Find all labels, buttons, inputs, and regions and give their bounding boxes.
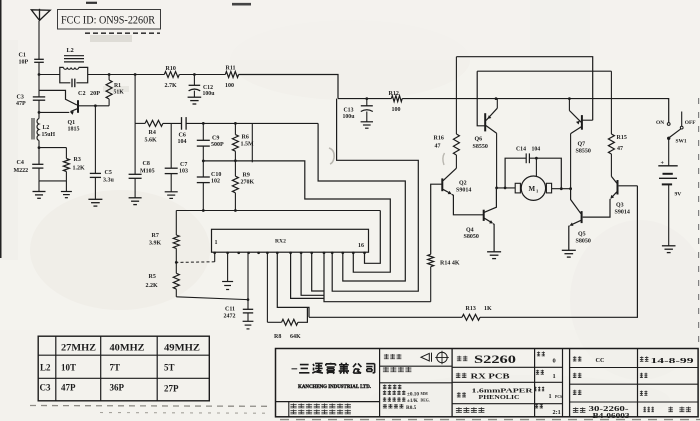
node pin row dots <box>213 251 216 254</box>
resistor R1 <box>108 75 110 81</box>
wire R11 to bus corner <box>239 75 338 99</box>
svg-text:2:1: 2:1 <box>553 409 561 416</box>
label surface treatment (CJK) <box>456 407 485 412</box>
wire C14 right leg <box>529 158 561 189</box>
transistor Q5 base bar <box>581 211 583 223</box>
resistor R10 <box>164 72 179 78</box>
svg-text:20P: 20P <box>90 90 100 97</box>
switch SW1 pole <box>667 137 670 140</box>
svg-text:C11: C11 <box>225 307 235 313</box>
svg-text:Q3: Q3 <box>616 203 624 209</box>
svg-text:ON: ON <box>656 120 664 126</box>
svg-text:S9014: S9014 <box>456 188 471 194</box>
node Q7 emitter bus tap <box>568 97 571 100</box>
wire R5 bottom to C11 node <box>176 297 247 300</box>
resistor R4 <box>145 120 163 126</box>
transistor Q4 emitter <box>484 218 492 223</box>
capacitor C11 <box>243 308 253 310</box>
svg-text:C2: C2 <box>78 90 86 97</box>
battery BT cells <box>658 165 677 167</box>
node C14 mid tap <box>535 157 538 160</box>
wire base junction down to C5 <box>94 106 96 174</box>
wire pin15 nest to C9/C10 node <box>203 161 390 272</box>
wire Q6 emitter to bus <box>496 99 498 109</box>
svg-text:SW1: SW1 <box>676 139 687 145</box>
svg-text:2.7K: 2.7K <box>165 83 178 89</box>
svg-text:5T: 5T <box>164 363 175 373</box>
wire detector node R7 to pin16 riser <box>176 210 380 212</box>
label part no (CJK) <box>573 407 586 412</box>
ground under C4 <box>38 181 40 192</box>
bus tap stub <box>251 123 253 162</box>
label revision (CJK) <box>537 352 545 357</box>
wire C1 to junction <box>38 62 40 74</box>
svg-text:R5: R5 <box>149 274 156 280</box>
wire switch to battery <box>668 138 670 166</box>
resistor R8 <box>282 319 298 325</box>
tolerance note line2 <box>383 391 406 395</box>
wire Q5 emitter to ground <box>568 226 571 251</box>
svg-text:2.2K: 2.2K <box>146 283 159 289</box>
svg-text:CC: CC <box>596 357 605 364</box>
svg-text:R1: R1 <box>114 83 121 89</box>
wire Q1 collector tap to C3 <box>38 90 40 97</box>
label approved (CJK) <box>573 390 582 395</box>
svg-text:49MHZ: 49MHZ <box>164 343 200 353</box>
resistor R16 <box>453 134 459 155</box>
svg-text:5.6K: 5.6K <box>145 138 158 144</box>
svg-text:S9014: S9014 <box>615 210 630 216</box>
scan mark top middle <box>232 3 251 6</box>
wire bus to switch <box>668 99 669 123</box>
svg-text:OFF: OFF <box>685 120 696 126</box>
svg-text:R9: R9 <box>243 173 250 179</box>
wire pin14 nest to filter bus <box>318 123 405 281</box>
wire Q6 collector to motor node <box>496 133 498 188</box>
svg-text:47: 47 <box>617 146 623 152</box>
svg-text:R3: R3 <box>74 157 81 163</box>
capacitor C6 series <box>181 117 183 130</box>
node R7/R5 junction <box>175 261 178 264</box>
scan curl artifact near nest <box>329 148 334 164</box>
svg-text:7T: 7T <box>110 363 121 373</box>
bottom bus wire to R13 <box>309 316 462 318</box>
transistor Q6 base bar <box>484 113 486 131</box>
svg-text:104: 104 <box>532 147 541 153</box>
node R6/R9 mid <box>234 159 237 162</box>
transistor Q2 collector <box>443 168 457 181</box>
node R1 top <box>108 73 111 76</box>
tank loop bottom with capacitor C2 <box>60 75 71 83</box>
svg-text:S2260: S2260 <box>474 354 516 366</box>
wire junction to tank <box>39 74 60 76</box>
svg-text:1: 1 <box>215 240 218 246</box>
switch SW1 OFF contact <box>681 112 683 127</box>
capacitor C7 column <box>170 123 172 168</box>
svg-text:C13: C13 <box>344 108 354 114</box>
wire Q7 emitter to bus <box>568 99 570 111</box>
wire C4-R3 bottom link <box>39 180 66 182</box>
transistor Q7 emitter with arrow <box>569 111 581 123</box>
label date1 (CJK) <box>640 356 649 361</box>
capacitor C12 electrolytic <box>193 75 195 86</box>
resistor R11 <box>225 72 238 78</box>
ground under C5 <box>88 198 102 200</box>
wire Q2 emitter to Q4 base <box>452 194 484 215</box>
wire antenna to C1 <box>38 21 40 59</box>
resistor R13 <box>462 314 480 320</box>
projection symbol target <box>437 352 447 362</box>
wire left rail to filter bus <box>134 75 136 124</box>
switch SW1 ON contact <box>667 123 670 126</box>
svg-text:100: 100 <box>392 107 401 113</box>
wire Q4 emitter to ground <box>493 224 494 252</box>
svg-text:104: 104 <box>178 139 187 145</box>
scan left edge line <box>0 0 2 258</box>
node motor right <box>569 187 572 190</box>
svg-text:40MHZ: 40MHZ <box>110 343 145 353</box>
switch SW1 lever <box>669 129 681 138</box>
wire pin9 step <box>291 252 324 298</box>
transistor Q1 base bar <box>77 100 79 113</box>
svg-text:C9: C9 <box>212 136 219 142</box>
svg-text:RX2: RX2 <box>275 239 286 245</box>
svg-text:S8050: S8050 <box>464 234 479 240</box>
svg-text:R7: R7 <box>152 233 159 239</box>
node C10 bottom <box>202 209 205 212</box>
svg-text:PCS: PCS <box>555 395 562 399</box>
svg-text:Q1: Q1 <box>68 120 76 126</box>
capacitor C14 <box>525 153 527 163</box>
wire pin7 down and jog <box>277 252 309 317</box>
svg-text:C1: C1 <box>19 53 26 59</box>
svg-text:M105: M105 <box>140 169 155 175</box>
svg-text:36P: 36P <box>110 383 125 393</box>
wire pin6 down <box>266 252 268 322</box>
motor M1 left tab <box>515 183 520 193</box>
wire R4 to C6 <box>163 122 182 124</box>
capacitor C3 <box>33 96 45 98</box>
capacitor C8 on left rail <box>134 123 136 174</box>
wire Q7 collector to motor node <box>570 134 572 189</box>
transistor Q3 base bar <box>617 180 619 195</box>
node base/C5 junction <box>94 104 97 107</box>
capacitor C13 electrolytic <box>366 99 368 106</box>
wire pin11 step <box>312 252 324 291</box>
ground under pin2 <box>222 281 233 283</box>
ground under R3 <box>65 181 67 192</box>
title block row lines left <box>276 401 380 403</box>
node L2/C4 junction <box>38 146 41 149</box>
transistor Q7 collector <box>571 127 582 134</box>
svg-text:47P: 47P <box>16 101 26 107</box>
tolerance note line4 <box>383 404 404 408</box>
svg-text:R10: R10 <box>166 66 176 72</box>
wire R15 to Q3 collector <box>610 154 612 176</box>
scan right edge dashes <box>698 98 700 345</box>
wire C14 left leg <box>505 158 526 188</box>
transistor Q6 collector <box>486 126 497 134</box>
svg-text:R4: R4 <box>149 130 156 136</box>
wire R14 riser <box>430 267 432 302</box>
svg-text:M: M <box>529 185 536 193</box>
wire cross rail 2 (Q6 base) <box>477 70 611 72</box>
wire main supply bus <box>338 98 391 100</box>
tank circuit loop with coil L2 <box>60 67 64 74</box>
node C12 tap <box>193 73 196 76</box>
resistor R9 <box>234 161 236 176</box>
node motor left <box>495 187 498 190</box>
label drawn by (CJK) <box>573 356 582 361</box>
wire rail1 left leg / R16 column upper <box>455 57 457 134</box>
svg-text:27P: 27P <box>164 384 179 394</box>
transistor Q7 base bar <box>581 115 583 130</box>
FCC ID label box <box>58 10 161 30</box>
wire junction to R3 <box>39 147 66 149</box>
svg-text:1: 1 <box>553 373 556 380</box>
svg-text:102: 102 <box>211 179 220 185</box>
resistor R12 <box>391 96 402 102</box>
svg-text:R13: R13 <box>466 306 476 312</box>
svg-text:±0.10: ±0.10 <box>407 391 419 397</box>
wire Q1 base <box>79 105 109 107</box>
svg-text:S8050: S8050 <box>576 239 591 245</box>
svg-text:47P: 47P <box>61 383 76 393</box>
title block row lines mid-left <box>380 365 453 367</box>
ground under C11 <box>243 320 254 322</box>
node R9 bottom <box>234 209 237 212</box>
wire Q1 emitter to rail <box>39 111 69 113</box>
ground under C12 <box>188 96 202 98</box>
title block row lines right <box>570 367 699 369</box>
wire pin6 to R8 <box>267 321 281 323</box>
svg-text:R6: R6 <box>242 135 249 141</box>
label projection method (CJK) <box>384 354 402 359</box>
svg-text:2472: 2472 <box>224 314 236 320</box>
node left rail top <box>134 73 137 76</box>
capacitor C10 <box>202 161 204 177</box>
transistor Q3 collector <box>611 176 617 183</box>
svg-text:10T: 10T <box>61 363 76 373</box>
node C14 right bottom <box>560 187 563 190</box>
wire rail2 left leg to Q6 base <box>477 71 485 126</box>
svg-text:100u: 100u <box>203 91 216 97</box>
node emitter tap <box>38 111 41 114</box>
label quantity (CJK) <box>536 370 544 375</box>
svg-text:C7: C7 <box>180 162 187 168</box>
transistor Q5 collector <box>571 189 581 214</box>
wire pin1 stub <box>214 252 216 262</box>
scan mark top left <box>86 2 97 4</box>
svg-text:100: 100 <box>225 83 234 89</box>
svg-text:500P: 500P <box>211 142 224 148</box>
node C13 tap <box>365 97 368 100</box>
capacitor C1 <box>34 58 44 60</box>
wire cross rail 1 (Q7 base) <box>456 57 592 120</box>
wire pin12 down to R14 run <box>324 252 431 302</box>
wire Q3 base <box>619 185 638 187</box>
wire pin10 step <box>301 252 324 295</box>
wire pin16 nest to detector node <box>365 211 381 264</box>
inductor L2 core lines <box>31 118 33 140</box>
tolerance note line3 <box>383 397 406 401</box>
svg-text:0: 0 <box>553 358 556 365</box>
svg-text:S8550: S8550 <box>473 144 488 150</box>
projection symbol cone <box>421 353 429 361</box>
svg-text:C6: C6 <box>179 133 186 139</box>
svg-text:DEG.: DEG. <box>421 399 430 403</box>
wire R16 to Q2 collector <box>455 155 457 168</box>
wire filter bus left <box>135 122 145 124</box>
label date2 (CJK) <box>640 373 648 378</box>
resistor R14 <box>428 254 434 266</box>
note cell text (CJK) <box>290 404 351 409</box>
svg-text:Q4: Q4 <box>466 228 474 234</box>
svg-text:KANCHENG INDUSTRIAL LTD.: KANCHENG INDUSTRIAL LTD. <box>298 384 372 390</box>
smudge dashes under table <box>30 405 268 408</box>
label sheet 1 of 1 (CJK) <box>643 407 654 412</box>
smudge bottom edge <box>280 419 700 421</box>
svg-text:PHENOLIC: PHENOLIC <box>479 394 520 401</box>
transistor Q6 emitter with arrow <box>486 108 497 120</box>
svg-text:RX PCB: RX PCB <box>471 373 510 381</box>
svg-text:16: 16 <box>358 243 364 249</box>
wire rail2 right leg / R15 column upper <box>610 71 612 134</box>
svg-text:R16: R16 <box>434 136 444 142</box>
transistor Q2 emitter <box>443 189 451 193</box>
svg-text:47: 47 <box>435 144 441 150</box>
label checked (CJK) <box>573 373 582 378</box>
capacitor C4 <box>38 148 40 165</box>
svg-text:C14: C14 <box>516 147 526 153</box>
svg-text:51K: 51K <box>114 90 125 96</box>
node C11/R5 tap <box>247 298 250 301</box>
wire C14 tap to motor top <box>535 158 537 176</box>
svg-text:27MHZ: 27MHZ <box>61 343 96 353</box>
ground under C8 <box>129 197 142 199</box>
node Q6 emitter bus tap <box>495 97 498 100</box>
inductor L2 15uH coil <box>38 112 40 147</box>
transistor Q4 base bar <box>483 210 485 221</box>
svg-text:9V: 9V <box>675 192 682 198</box>
ground under C13 <box>361 121 373 123</box>
scan curl artifact near Q2 <box>443 153 445 165</box>
wire C3 to emitter tap <box>38 100 40 112</box>
ground under Q5 <box>562 249 576 251</box>
resistor R6 <box>234 123 236 134</box>
wire Q3 emitter to Q5 base <box>583 199 611 217</box>
svg-text:R0.5: R0.5 <box>406 405 417 411</box>
svg-text:R12: R12 <box>389 91 399 97</box>
svg-text:Q6: Q6 <box>475 137 483 143</box>
svg-text:10P: 10P <box>19 60 29 66</box>
capacitor C2 plates <box>71 79 73 88</box>
title block row lines mid <box>452 366 562 368</box>
svg-text:R11: R11 <box>226 66 236 72</box>
resistor R5 <box>175 262 177 273</box>
frequency table grid <box>38 336 209 401</box>
svg-text:±1/K: ±1/K <box>407 398 418 404</box>
label material (CJK) <box>457 392 466 397</box>
svg-text:C4: C4 <box>17 160 24 166</box>
svg-text:3.3u: 3.3u <box>103 178 115 184</box>
transistor Q5 emitter <box>571 220 582 225</box>
svg-text:Q2: Q2 <box>459 181 467 187</box>
svg-text:C3: C3 <box>40 383 51 393</box>
node antenna/tank junction <box>38 73 41 76</box>
transistor Q3 emitter <box>611 192 617 198</box>
svg-text:R8: R8 <box>274 334 281 340</box>
title block vertical dividers <box>379 349 381 417</box>
svg-text:M222: M222 <box>14 168 29 174</box>
node C9 top <box>202 122 205 125</box>
wire pin1 dashed to R7/R5 junction <box>176 261 214 264</box>
svg-text:Q7: Q7 <box>578 142 586 148</box>
label drawing no (CJK) <box>457 356 468 361</box>
label sheets (CJK) <box>534 387 544 391</box>
svg-text:Q5: Q5 <box>578 232 586 238</box>
wire pin13 nest to bus <box>332 99 418 292</box>
transistor Q1 emitter <box>71 108 79 111</box>
wire motor right <box>552 188 571 190</box>
svg-text:1.2K: 1.2K <box>73 166 86 172</box>
svg-text:L2: L2 <box>67 47 74 54</box>
svg-text:L2: L2 <box>40 363 51 373</box>
svg-text:3.9K: 3.9K <box>149 241 162 247</box>
title block outer frame <box>276 349 699 417</box>
svg-text:C3: C3 <box>17 94 24 100</box>
label date3 (CJK) <box>640 391 648 396</box>
company name San Da Industrial (CJK) <box>299 365 309 373</box>
wire pin4 to C11 <box>247 252 249 309</box>
wire Q7 base to rail1 <box>582 119 593 121</box>
motor M1 body <box>521 176 545 200</box>
resistor R7 <box>175 211 177 236</box>
svg-text:L2: L2 <box>43 125 50 131</box>
ground under battery <box>662 245 676 247</box>
label name (CJK) <box>456 373 467 378</box>
svg-text:R14 4K: R14 4K <box>440 261 460 267</box>
svg-text:270K: 270K <box>241 180 255 186</box>
op-amp IC RX2 body <box>212 229 369 252</box>
transistor Q4 collector <box>484 188 496 212</box>
svg-text:14-8-99: 14-8-99 <box>651 357 695 365</box>
svg-text:R15: R15 <box>617 135 627 141</box>
antenna ANT <box>31 10 50 21</box>
svg-text:C10: C10 <box>211 172 221 178</box>
svg-text:C8: C8 <box>143 161 150 167</box>
svg-text:100u: 100u <box>343 114 356 120</box>
company name leading dash <box>292 368 298 370</box>
wire battery to ground <box>668 184 670 245</box>
wire R8 to pin7 net <box>298 307 308 322</box>
wire R10 to R11 <box>179 74 225 76</box>
wire C9 node to R6 node to corner <box>203 122 318 124</box>
svg-text:103: 103 <box>179 169 188 175</box>
bottom bus wire to Q3 base riser <box>480 186 637 317</box>
svg-text:FCC ID: ON9S-2260R: FCC ID: ON9S-2260R <box>61 13 155 27</box>
tolerance note line1 (CJK) <box>383 385 402 389</box>
capacitor C9 <box>202 123 204 140</box>
wire tank to R1/R10 <box>88 74 165 76</box>
label scale (CJK) <box>535 404 543 408</box>
node C14 left bottom <box>504 187 507 190</box>
label model name (CJK) <box>383 367 412 372</box>
svg-text:S8550: S8550 <box>576 149 591 155</box>
wire bus R12 to switch <box>402 98 667 100</box>
resistor R3 <box>65 148 67 159</box>
svg-text:MM: MM <box>421 392 429 396</box>
